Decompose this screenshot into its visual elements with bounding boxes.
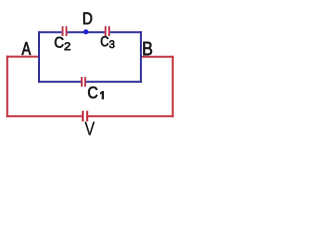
node D junction dot [83,29,88,34]
wire: red right vertical of outer loop [172,56,174,117]
wire: blue left side vertical (node A) [38,31,40,82]
capacitor C2 plates [62,26,68,36]
wire: red bottom left segment (to battery V) [6,115,82,117]
wire: blue bottom side right segment (C1 to right corner) [86,81,142,83]
wire: red right stub from node B to outer loop [140,56,174,58]
wire: blue top side middle segment (C2 to C3 through node D) [67,31,104,33]
node D label [84,13,93,25]
label C3 subscript 3 [109,40,114,48]
label V [85,122,95,135]
node B label [143,42,152,55]
capacitor C1 plates [81,77,86,87]
battery V plates [82,111,88,122]
wire: blue top side left segment (corner to C2) [38,31,62,33]
wire: blue bottom side left segment (to C1) [38,81,81,83]
label C3 letter C [101,36,109,46]
label C1 subscript 1 [100,91,103,99]
wire: red bottom right segment (battery V to right) [88,115,174,117]
wire: blue right side vertical (node B) [140,31,142,82]
label C2 subscript 2 [65,42,71,50]
wire: blue top side right segment (C3 to corner) [110,31,142,33]
label C2 letter C [55,37,64,48]
capacitor C3 plates [105,26,111,36]
node A label [22,42,31,55]
label C1 letter C [88,87,97,99]
wire: red left vertical of outer loop [6,56,8,118]
wire: red left stub from node A to outer loop [6,56,40,58]
